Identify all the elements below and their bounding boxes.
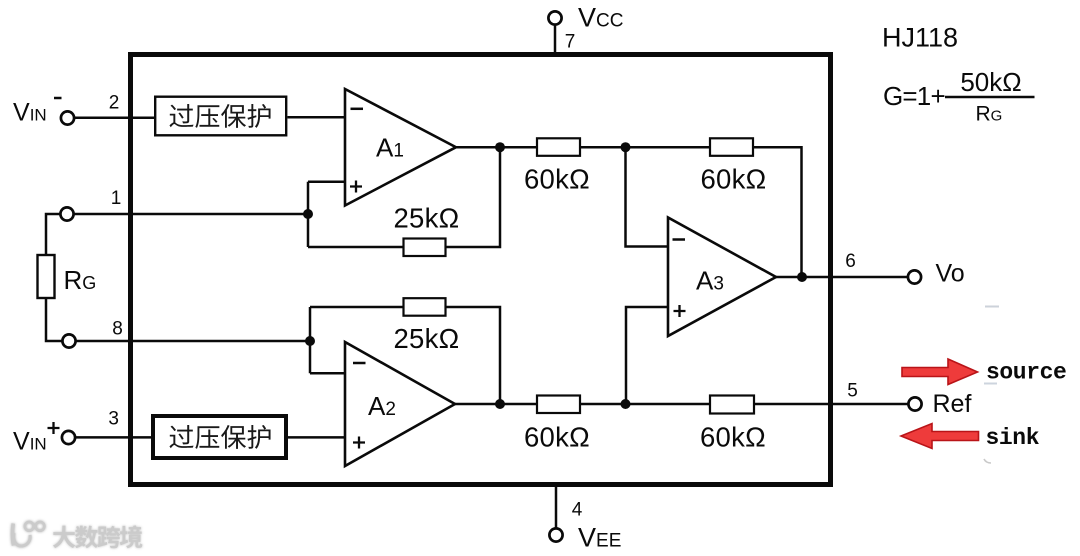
wire 25k lower to A2 output node <box>446 307 501 404</box>
wire pin1 to RG branch <box>46 214 61 255</box>
terminal VEE pin 4 <box>549 528 562 541</box>
faint artifact dash below source <box>984 383 997 385</box>
svg-text:1: 1 <box>111 188 122 209</box>
wire to A2 inverting input <box>310 372 345 375</box>
arrow sink current <box>901 424 979 449</box>
wire pin2 to overvoltage box <box>75 116 155 119</box>
op-amp A1 <box>345 89 456 206</box>
VIN+ superscript plus <box>48 422 60 434</box>
wire 60k3 to ref node <box>580 403 710 406</box>
junction pin8 node <box>305 336 315 346</box>
faint artifact hook below sink <box>984 459 991 463</box>
terminal VIN- pin 2 <box>61 111 74 124</box>
svg-text:Vo: Vo <box>936 260 965 288</box>
op-amp A2 <box>345 342 455 466</box>
overvoltage protection box 2 <box>153 416 286 458</box>
svg-text:2: 2 <box>109 93 120 114</box>
terminal pin 8 <box>62 334 75 347</box>
wire 60k2 to A3 output net <box>753 147 802 277</box>
wire A1 feedback lower <box>308 246 404 249</box>
svg-text:7: 7 <box>565 31 576 52</box>
svg-text:sink: sink <box>986 425 1040 451</box>
junction pin1 node <box>303 209 313 219</box>
overvoltage text box1 <box>169 104 193 127</box>
wire VEE lead pin 4 <box>555 485 558 528</box>
terminal pin 1 <box>60 207 73 220</box>
junction A2 output node <box>495 399 505 409</box>
watermark halo <box>12 522 142 548</box>
terminal VIN+ pin 3 <box>62 431 75 444</box>
resistor 60k top-left body <box>537 138 580 156</box>
VIN- superscript minus <box>54 97 62 100</box>
resistor 25k lower body <box>404 298 446 316</box>
resistor 60k top-right body <box>710 138 753 156</box>
overvoltage text box2 <box>169 425 193 448</box>
terminal VCC pin 7 <box>548 11 561 24</box>
svg-text:60kΩ: 60kΩ <box>524 422 590 453</box>
wire node pin1 vertical <box>307 182 310 247</box>
wire A2 output <box>455 403 537 406</box>
wire A2 feedback upper <box>310 306 404 309</box>
wire box1 to A1 inverting input <box>288 116 346 119</box>
wire node to A3 inverting input <box>626 147 669 246</box>
wire RG to pin 8 <box>46 298 63 341</box>
svg-text:G=1+: G=1+ <box>883 81 945 111</box>
arrow source current <box>902 359 978 385</box>
formula fraction bar <box>945 96 1035 98</box>
watermark logo <box>12 522 44 546</box>
svg-text:60kΩ: 60kΩ <box>700 422 766 453</box>
wire to A1 noninverting input <box>308 181 345 184</box>
svg-text:60kΩ: 60kΩ <box>524 164 590 195</box>
wire 25k to A1 output node <box>446 147 501 247</box>
A1 plus sign <box>350 181 362 193</box>
wire A3 noninverting input <box>626 307 668 404</box>
junction ref node <box>621 399 631 409</box>
svg-text:6: 6 <box>845 251 856 272</box>
svg-text:60kΩ: 60kΩ <box>700 164 766 195</box>
svg-text:3: 3 <box>108 408 119 429</box>
wire A3 output to pin 6 <box>776 276 909 279</box>
wire VCC lead pin 7 <box>554 25 557 55</box>
svg-text:50kΩ: 50kΩ <box>960 67 1021 97</box>
svg-text:HJ118: HJ118 <box>882 23 958 53</box>
junction 60k node top <box>621 142 631 152</box>
wire pin8 to A2 node <box>76 340 311 343</box>
resistor RG <box>38 255 55 298</box>
faint artifact dash above source <box>985 306 999 308</box>
svg-text:25kΩ: 25kΩ <box>393 323 459 354</box>
A1 minus sign <box>351 108 364 111</box>
op-amp A3 <box>668 218 776 337</box>
wire node pin8 vertical <box>309 307 312 373</box>
junction A3 output node <box>797 272 807 282</box>
svg-text:Ref: Ref <box>933 390 972 418</box>
A3 minus sign <box>673 238 686 241</box>
A2 plus sign <box>353 437 365 449</box>
A3 plus sign <box>674 305 686 317</box>
IC package boundary U1 <box>131 55 831 485</box>
svg-text:8: 8 <box>112 319 123 340</box>
resistor 25k upper body <box>404 239 446 257</box>
svg-text:source: source <box>986 360 1066 386</box>
wire ref node to pin 5 <box>754 403 909 406</box>
junction A1 output node <box>495 142 505 152</box>
wire A1 output <box>456 146 537 149</box>
terminal Vo pin 6 <box>908 270 921 283</box>
wire 60k1 to node <box>580 146 710 149</box>
resistor 60k bottom-left body <box>537 396 580 414</box>
resistor 60k bottom-right body <box>710 396 754 414</box>
A2 minus sign <box>353 362 366 365</box>
terminal Ref pin 5 <box>908 397 921 410</box>
svg-text:5: 5 <box>847 381 858 402</box>
wire pin1 to A1 + node <box>74 213 309 216</box>
svg-text:25kΩ: 25kΩ <box>393 202 459 233</box>
wire box2 to A2 noninverting input <box>288 436 345 439</box>
watermark text <box>53 526 75 548</box>
svg-text:4: 4 <box>572 499 583 520</box>
overvoltage protection box 1 <box>155 97 286 136</box>
wire pin3 to overvoltage box 2 <box>76 436 152 439</box>
